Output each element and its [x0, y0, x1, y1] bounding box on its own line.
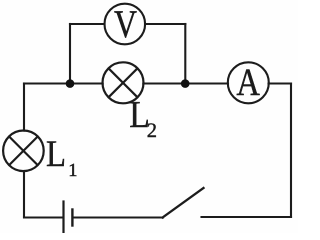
wire: top rail left segment (top-left corner to junction A to lamp L2) — [24, 82, 103, 84]
label L2 — [129, 94, 157, 142]
wire: voltmeter branch top-left horizontal (to voltmeter) — [70, 23, 105, 25]
wire: voltmeter branch right vertical (down to junction B) — [184, 24, 186, 84]
svg-text:1: 1 — [68, 161, 77, 181]
wire: voltmeter branch left vertical (junction A up) — [69, 24, 71, 84]
wire: voltmeter branch top-right horizontal (voltmeter to corner) — [145, 23, 185, 25]
switch S1 (open blade from pivot up-right) — [163, 188, 204, 218]
wire: right vertical segment (top-right corner to bottom-right corner) — [290, 84, 292, 218]
wire: left vertical upper segment (top-left corner down to lamp L1) — [23, 84, 25, 131]
svg-text:L: L — [46, 134, 66, 175]
battery long plate (positive terminal) — [62, 202, 64, 233]
ammeter U2 (A) — [228, 62, 269, 104]
wire: bottom middle segment (battery short plate to switch pivot) — [73, 216, 163, 218]
svg-text:A: A — [236, 62, 260, 104]
lamp L1 (circle with X) — [3, 131, 44, 172]
lamp L2 (circle with X) — [103, 62, 144, 103]
wire: left vertical lower segment (lamp L1 down to bottom-left corner) — [23, 171, 25, 217]
node A (junction dot left) — [66, 79, 75, 88]
wire: top rail middle segment (lamp L2 to junction B to ammeter) — [143, 82, 228, 84]
wire: bottom-right segment (bottom-right corner to switch fixed contact) — [202, 216, 292, 218]
label L1 — [46, 134, 77, 181]
voltmeter U1 (V) — [105, 3, 146, 46]
node B (junction dot right) — [181, 79, 190, 88]
svg-text:2: 2 — [147, 120, 157, 142]
wire: bottom-left segment (corner to battery long plate) — [24, 216, 63, 218]
battery short plate (negative terminal) — [71, 210, 73, 226]
wire: top rail right segment (ammeter to top-right corner) — [269, 82, 292, 84]
svg-text:V: V — [114, 3, 137, 46]
